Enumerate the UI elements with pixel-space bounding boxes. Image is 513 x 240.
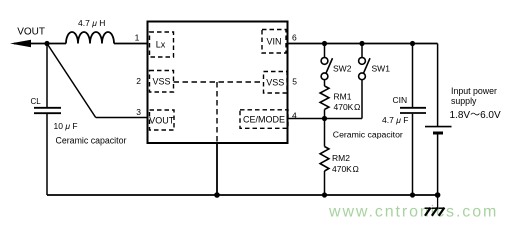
wire VSS net to bottom rail <box>216 143 218 195</box>
resistor RM2 <box>320 119 329 196</box>
svg-text:CE/MODE: CE/MODE <box>243 115 285 125</box>
svg-text:470K Ω: 470K Ω <box>332 164 359 174</box>
note ceramic capacitor (CIN) <box>333 129 403 139</box>
pin number 6 <box>292 32 297 42</box>
label CIN <box>393 95 408 105</box>
svg-text:4.7 μ F: 4.7 μ F <box>382 115 408 125</box>
label input power supply <box>451 86 497 106</box>
ground <box>425 195 445 216</box>
svg-text:VIN: VIN <box>266 37 281 47</box>
svg-text:CIN: CIN <box>393 95 408 105</box>
value 4.7 uF <box>382 115 408 125</box>
pin number 1 <box>135 33 140 43</box>
wire pin3 feedback (diagonal) <box>47 44 148 118</box>
note ceramic capacitor (CL) <box>56 135 127 145</box>
svg-text:3: 3 <box>136 107 141 117</box>
label CL <box>31 97 42 106</box>
svg-text:10 μ F: 10 μ F <box>54 121 78 131</box>
junction dot rail/RM2 <box>322 192 327 197</box>
capacitor CL <box>34 44 61 196</box>
inductor L1 <box>47 32 148 44</box>
pin number 5 <box>292 77 297 87</box>
node VOUT junction <box>44 41 49 46</box>
capacitor CIN <box>400 44 426 196</box>
value label 4.7 uH <box>78 18 105 28</box>
wire CE/MODE to switches <box>288 118 363 120</box>
pin number 3 <box>136 107 141 117</box>
wire VIN top rail <box>288 43 438 45</box>
label RM2 470KOhm <box>332 153 359 174</box>
pin box VSS left <box>150 71 174 93</box>
svg-text:VSS: VSS <box>152 77 170 87</box>
pin box VOUT <box>149 110 175 130</box>
junction dot CIN top <box>410 41 415 46</box>
svg-text:www.cntronics.com: www.cntronics.com <box>328 204 498 221</box>
pin box Lx <box>150 32 174 57</box>
svg-text:VSS: VSS <box>266 78 284 88</box>
switch SW1 <box>359 44 370 119</box>
pin box VIN <box>262 30 286 54</box>
svg-text:RM2: RM2 <box>332 153 350 163</box>
svg-text:1: 1 <box>135 33 140 43</box>
label 1.8V~6.0V <box>450 110 501 121</box>
svg-text:2: 2 <box>136 76 141 86</box>
pin box CE/MODE <box>240 110 288 129</box>
dashed internal VSS net <box>174 82 264 143</box>
label VOUT <box>17 26 45 37</box>
IC U1 body <box>148 22 288 144</box>
battery BT1 <box>425 44 452 196</box>
watermark <box>328 204 498 221</box>
svg-text:470K Ω: 470K Ω <box>334 102 361 112</box>
svg-text:VOUT: VOUT <box>17 26 45 37</box>
junction dot rail/IC <box>214 192 220 198</box>
label RM1 470KOhm <box>334 92 361 113</box>
switch SW2 <box>321 44 332 87</box>
svg-text:SW1: SW1 <box>372 64 391 74</box>
label SW2 <box>333 64 352 74</box>
svg-text:Ceramic capacitor: Ceramic capacitor <box>333 129 403 139</box>
junction dot SW1 top <box>359 41 364 46</box>
bottom ground rail <box>47 194 438 196</box>
junction dot rail/CIN <box>410 192 415 197</box>
svg-text:5: 5 <box>292 77 297 87</box>
svg-text:supply: supply <box>451 96 477 106</box>
svg-text:1.8V～6.0V: 1.8V～6.0V <box>450 110 501 121</box>
svg-text:4.7 μ H: 4.7 μ H <box>78 18 105 28</box>
junction dot rail/battery <box>435 192 441 198</box>
svg-text:SW2: SW2 <box>333 64 352 74</box>
label SW1 <box>372 64 391 74</box>
pin box VSS right <box>264 72 288 94</box>
svg-text:Ceramic capacitor: Ceramic capacitor <box>56 135 127 145</box>
pin number 2 <box>136 76 141 86</box>
junction dot RM1/RM2 <box>322 116 327 121</box>
svg-text:Lx: Lx <box>156 40 166 50</box>
svg-text:Input power: Input power <box>451 86 497 96</box>
VOUT output arrow <box>10 40 47 48</box>
pin number 4 <box>292 110 297 120</box>
junction dot SW2 top <box>322 41 327 46</box>
value 10 uF <box>54 121 78 131</box>
svg-text:CL: CL <box>31 97 42 106</box>
svg-text:6: 6 <box>292 32 297 42</box>
resistor RM1 <box>320 86 329 119</box>
svg-text:RM1: RM1 <box>334 92 352 102</box>
svg-text:VOUT: VOUT <box>149 116 175 126</box>
